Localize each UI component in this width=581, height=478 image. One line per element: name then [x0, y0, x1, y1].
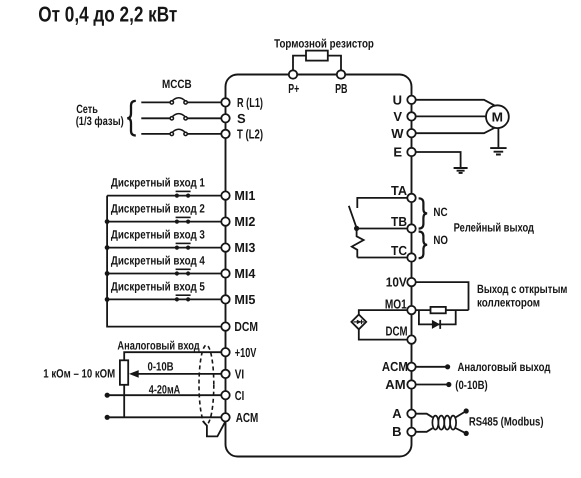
- switch MI1: [175, 194, 179, 198]
- svg-text:TC: TC: [391, 243, 408, 258]
- svg-text:PB: PB: [335, 81, 347, 96]
- terminal PB: [337, 70, 345, 78]
- svg-text:Дискретный вход 1: Дискретный вход 1: [111, 176, 205, 190]
- wire phase S left: [141, 117, 170, 119]
- terminal MI1: [221, 191, 229, 199]
- svg-text:DCM: DCM: [234, 319, 258, 334]
- wire B to choke: [416, 428, 433, 432]
- discrete input bus wire: [107, 196, 221, 327]
- svg-text:E: E: [393, 145, 402, 160]
- terminal B: [407, 428, 415, 436]
- wire phase R right: [187, 101, 221, 103]
- svg-text:Дискретный вход 4: Дискретный вход 4: [111, 253, 205, 267]
- wire phase T right: [187, 133, 221, 135]
- terminal A: [407, 410, 415, 418]
- svg-text:Дискретный вход 5: Дискретный вход 5: [111, 279, 205, 293]
- wire ACM analog out: [416, 366, 448, 368]
- wiper arrowhead: [129, 370, 139, 378]
- svg-text:Аналоговый вход: Аналоговый вход: [117, 339, 200, 353]
- svg-text:(1/3 фазы): (1/3 фазы): [76, 114, 124, 128]
- svg-text:NC: NC: [433, 205, 447, 219]
- svg-text:U: U: [393, 92, 402, 107]
- terminal 10V: [407, 278, 415, 286]
- potentiometer R1 body: [120, 360, 128, 385]
- brace NC: [419, 198, 428, 228]
- diode branch wire: [419, 310, 456, 324]
- junction dot MI5 bus: [105, 297, 110, 302]
- wire TA: [357, 198, 407, 208]
- junction dot MI2 bus: [105, 219, 110, 224]
- svg-text:MI2: MI2: [234, 214, 255, 229]
- terminal W: [407, 129, 415, 137]
- wire MI1: [107, 195, 221, 197]
- relay spring to TC: [352, 229, 364, 258]
- junction dot MI3 bus: [105, 245, 110, 250]
- svg-text:V: V: [393, 109, 402, 124]
- end dot RS485 upper: [464, 408, 469, 413]
- svg-text:M: M: [492, 110, 503, 125]
- terminal S: [221, 114, 229, 122]
- terminal TA: [407, 194, 415, 202]
- wire A to choke: [416, 414, 433, 418]
- wire optocoupler to DCM: [359, 329, 408, 339]
- brake resistor body: [306, 51, 328, 61]
- motor ground symbol: [490, 148, 506, 154]
- breaker contact R: [170, 101, 173, 104]
- svg-text:A: A: [392, 406, 402, 421]
- terminal DCM right: [407, 335, 415, 343]
- svg-text:P+: P+: [288, 81, 299, 96]
- terminal +10V: [221, 348, 229, 356]
- terminal TB: [407, 224, 415, 232]
- svg-text:MI5: MI5: [234, 292, 255, 307]
- wire MI5: [107, 298, 221, 300]
- svg-text:TB: TB: [391, 214, 407, 229]
- switch MI5: [175, 297, 179, 301]
- potentiometer lower lead wire: [123, 385, 125, 418]
- end dot ACM: [105, 415, 110, 420]
- terminal MI4: [221, 269, 229, 277]
- earth ground symbol E: [454, 168, 468, 173]
- switch MI3: [175, 246, 179, 250]
- end dot RS485 lower: [464, 431, 469, 436]
- wire MO1 through resistor: [416, 309, 469, 311]
- terminal ACM right: [407, 363, 415, 371]
- wire E to ground: [416, 152, 461, 167]
- inverter block outline U1: [226, 75, 412, 457]
- wire MO1 to optocoupler: [359, 310, 408, 314]
- wire 10V to box: [416, 282, 469, 310]
- wire P+ to brake resistor: [293, 56, 306, 71]
- svg-text:коллектором: коллектором: [477, 296, 540, 310]
- svg-text:T (L2): T (L2): [237, 127, 263, 142]
- terminal R (L1): [221, 98, 229, 106]
- svg-text:RS485 (Modbus): RS485 (Modbus): [469, 415, 544, 429]
- brace mains: [127, 101, 136, 136]
- svg-text:MI1: MI1: [234, 188, 255, 203]
- breaker contact S: [170, 117, 173, 120]
- wire VI wiper: [137, 373, 222, 375]
- wire AM analog out: [416, 384, 449, 386]
- svg-text:CI: CI: [235, 388, 244, 403]
- terminal U: [407, 96, 415, 104]
- wire phase R left: [141, 101, 170, 103]
- wire MI4: [107, 273, 221, 275]
- optocoupler diamond: [351, 315, 366, 330]
- relay pivot dot: [354, 226, 359, 231]
- svg-text:0-10В: 0-10В: [148, 360, 174, 374]
- svg-text:S: S: [237, 111, 246, 126]
- terminal MI3: [221, 243, 229, 251]
- svg-text:MO1: MO1: [385, 296, 407, 311]
- terminal VI: [221, 370, 229, 378]
- terminal MI5: [221, 295, 229, 303]
- wire TB: [357, 228, 408, 230]
- svg-text:ACM: ACM: [382, 359, 408, 374]
- motor M1 circle: [486, 105, 509, 128]
- terminal MI2: [221, 217, 229, 225]
- wire V to motor: [416, 115, 486, 117]
- terminal TC: [407, 253, 415, 261]
- junction dot MI4 bus: [105, 271, 110, 276]
- choke twisted pair L1: [432, 416, 438, 430]
- brace NO: [419, 232, 428, 259]
- terminal V: [407, 112, 415, 120]
- wire phase T left: [141, 133, 170, 135]
- svg-text:DCM: DCM: [386, 324, 408, 339]
- svg-text:Тормозной резистор: Тормозной резистор: [274, 36, 374, 50]
- wire ACM left: [107, 416, 221, 418]
- svg-text:R (L1): R (L1): [237, 95, 263, 110]
- svg-text:От 0,4 до 2,2 кВт: От 0,4 до 2,2 кВт: [38, 2, 177, 26]
- svg-text:MI4: MI4: [234, 266, 256, 281]
- wire CI: [107, 394, 221, 396]
- breaker contact T: [170, 132, 173, 135]
- switch MI2: [175, 220, 179, 224]
- diode D1: [432, 320, 440, 329]
- switch MI4: [175, 271, 179, 275]
- wire choke to RS485 upper: [455, 411, 466, 418]
- wire MI3: [107, 247, 221, 249]
- shield clamp: [203, 421, 226, 436]
- wire PB to brake resistor: [328, 56, 341, 71]
- svg-text:Аналоговый выход: Аналоговый выход: [458, 360, 551, 374]
- svg-text:Дискретный вход 3: Дискретный вход 3: [111, 228, 205, 242]
- svg-text:B: B: [392, 424, 401, 439]
- svg-text:MI3: MI3: [234, 240, 255, 255]
- svg-text:VI: VI: [235, 367, 244, 382]
- optocoupler inner arrow: [354, 321, 365, 323]
- relay switch blade: [349, 206, 357, 228]
- svg-text:10V: 10V: [386, 275, 407, 290]
- wire phase S right: [187, 117, 221, 119]
- svg-text:Выход с открытым: Выход с открытым: [477, 282, 567, 296]
- terminal CI: [221, 391, 229, 399]
- svg-text:Дискретный вход 2: Дискретный вход 2: [111, 202, 205, 216]
- wire MI2: [107, 221, 221, 223]
- wire W to motor: [416, 128, 495, 133]
- svg-text:W: W: [391, 126, 404, 141]
- svg-text:MCCB: MCCB: [162, 77, 192, 91]
- terminal P+: [289, 70, 297, 78]
- svg-text:+10V: +10V: [235, 345, 257, 360]
- end dot analog out: [445, 364, 450, 369]
- terminal ACM left: [221, 413, 229, 421]
- terminal T (L2): [221, 130, 229, 138]
- svg-text:ACM: ACM: [236, 410, 259, 425]
- wire U to motor: [416, 100, 495, 106]
- wire choke to RS485 lower: [455, 428, 466, 433]
- resistor MO1 body: [431, 307, 446, 313]
- terminal DCM left: [221, 322, 229, 330]
- svg-text:Релейный выход: Релейный выход: [454, 221, 535, 235]
- terminal AM: [407, 380, 415, 388]
- svg-text:(0-10В): (0-10В): [455, 378, 487, 392]
- wire +10V to potentiometer: [124, 352, 221, 360]
- motor ground wire: [497, 128, 499, 147]
- terminal MO1: [407, 306, 415, 314]
- shielded cable ellipse: [199, 345, 214, 424]
- svg-text:TA: TA: [391, 183, 408, 198]
- svg-text:AM: AM: [385, 377, 405, 392]
- end dot AM: [446, 382, 451, 387]
- wire TC: [357, 257, 407, 259]
- svg-text:NO: NO: [433, 233, 448, 247]
- svg-text:1 кОм – 10 кОМ: 1 кОм – 10 кОМ: [43, 367, 115, 381]
- end dot CI: [105, 393, 110, 398]
- terminal E: [407, 148, 415, 156]
- svg-text:4-20мА: 4-20мА: [149, 382, 181, 396]
